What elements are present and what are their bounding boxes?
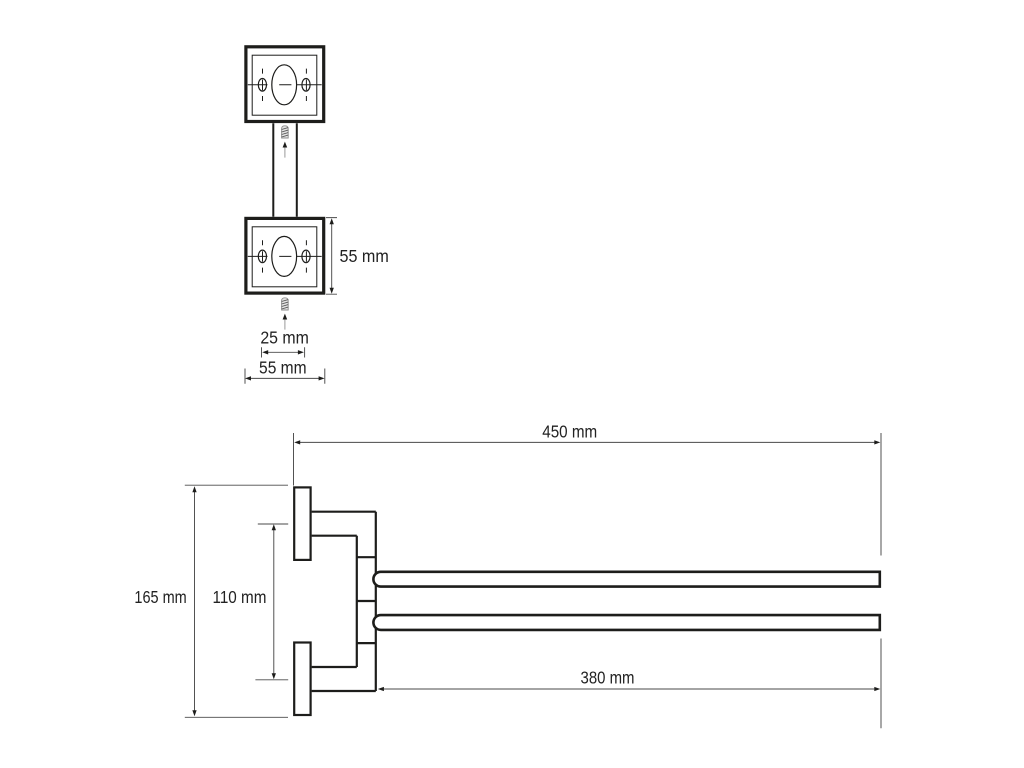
bracket arms and pivot column [312, 512, 376, 691]
dimension 450 mm (overall length, top) [294, 422, 882, 729]
screw + arrow below top plate [282, 126, 289, 158]
dimension 165 mm (overall height, left) [134, 485, 288, 717]
svg-text:110 mm: 110 mm [213, 587, 267, 607]
svg-text:55 mm: 55 mm [259, 357, 307, 377]
dimension 55 mm (plate height, right side) [326, 218, 389, 295]
bottom wall plate [246, 218, 324, 293]
svg-text:55 mm: 55 mm [340, 246, 389, 266]
towel bar 2 (bottom rail) [373, 615, 879, 630]
dimension 55 mm (plate width, bottom) [245, 357, 325, 383]
svg-text:380 mm: 380 mm [581, 668, 635, 688]
connecting vertical bar [273, 123, 297, 216]
top wall plate [246, 47, 324, 122]
dimension 25 mm (screw spacing) [260, 327, 309, 357]
svg-text:165 mm: 165 mm [134, 587, 186, 607]
screw + arrow below bottom plate [282, 298, 289, 330]
dimension 380 mm (bar length) [378, 668, 880, 691]
dimension 110 mm (arm spacing) [213, 524, 289, 680]
towel bar 1 (top rail) [373, 572, 879, 587]
svg-text:450 mm: 450 mm [542, 422, 597, 442]
wall plate (top, side view) [294, 487, 310, 560]
svg-text:25 mm: 25 mm [260, 327, 309, 347]
wall plate (bottom, side view) [294, 643, 310, 716]
